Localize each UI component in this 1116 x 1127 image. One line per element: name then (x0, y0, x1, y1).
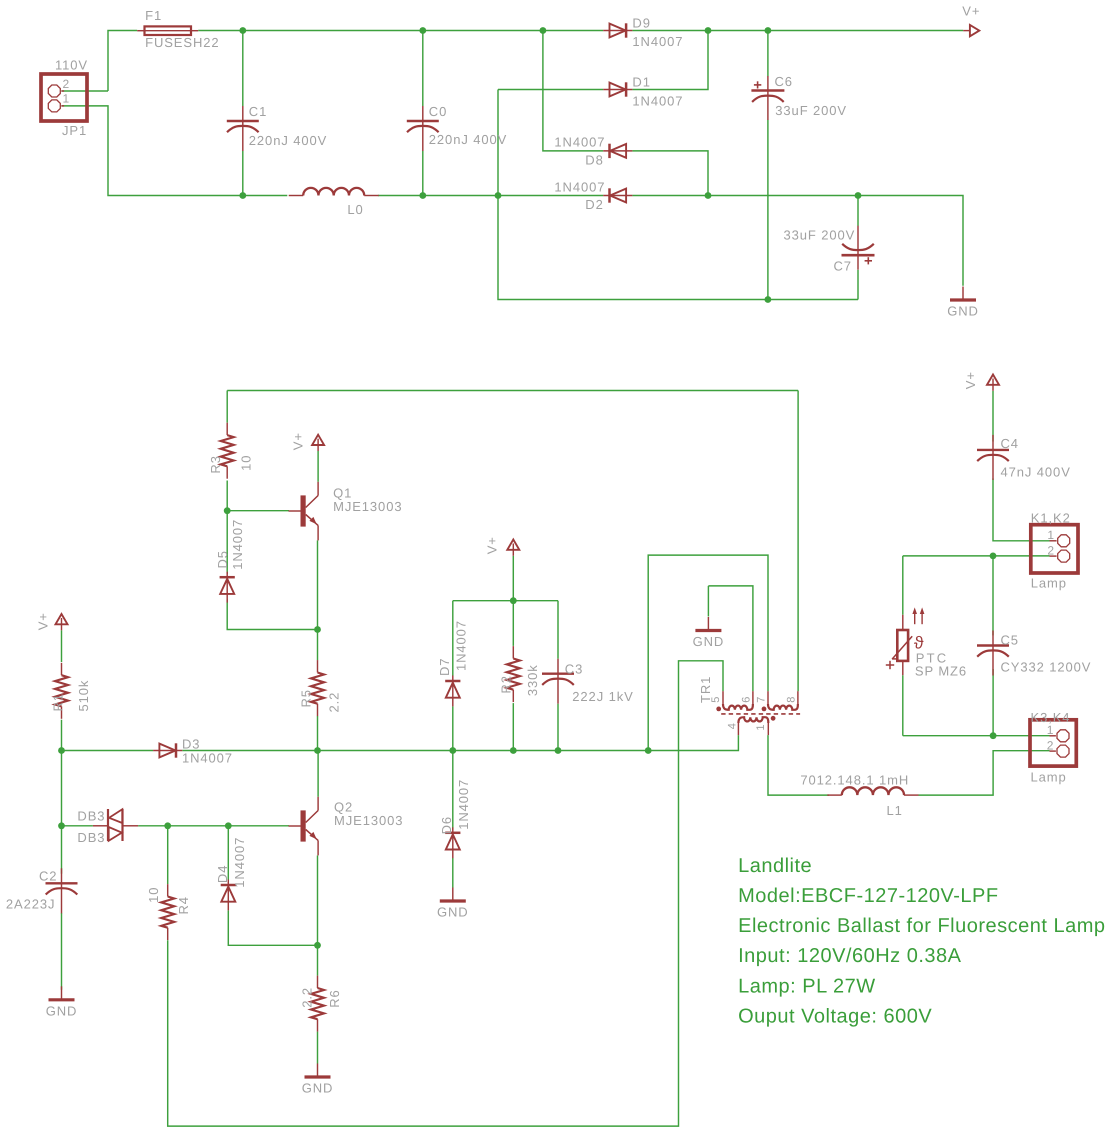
wire GND stub TR1 (707, 586, 709, 617)
wire C5 bottom (992, 669, 994, 736)
wire to DB3 row (61, 751, 63, 826)
inductor L0 (289, 188, 379, 196)
svg-text:V+: V+ (962, 3, 980, 18)
diode D8 (603, 144, 632, 158)
resistor R1 (55, 663, 68, 719)
wire Q2 collector up (317, 751, 319, 797)
svg-text:2: 2 (1047, 543, 1055, 557)
svg-text:2.2: 2.2 (300, 987, 315, 1008)
wire V+ top rail left (108, 31, 137, 92)
svg-text:GND: GND (46, 1003, 78, 1018)
thermistor PTC (886, 607, 925, 675)
wire D3 row to TR1 pin7 (648, 555, 768, 750)
svg-text:7012.148.1 1mH: 7012.148.1 1mH (800, 773, 909, 788)
junction (314, 942, 321, 949)
svg-text:220nJ 400V: 220nJ 400V (429, 132, 507, 147)
wire to D7 (452, 601, 454, 676)
wire bottom rail right (632, 196, 963, 286)
capacitor C0 (407, 106, 439, 151)
wire Q1 collector to V+ (317, 451, 319, 482)
svg-text:L1: L1 (887, 803, 903, 818)
wire C7 branch bottom (857, 270, 859, 300)
wire C0 branch bottom (422, 151, 424, 196)
wire C4 to K1K2 pin1 (993, 479, 1050, 541)
svg-text:5: 5 (710, 696, 722, 703)
ground C2 (46, 986, 78, 1018)
svg-text:Model:EBCF-127-120V-LPF: Model:EBCF-127-120V-LPF (738, 885, 999, 907)
ground D6 (437, 888, 469, 920)
svg-text:510k: 510k (76, 680, 91, 712)
junction (510, 747, 517, 754)
svg-text:V+: V+ (35, 612, 50, 630)
resistor R5 (311, 660, 324, 716)
svg-text:C3: C3 (565, 662, 583, 677)
svg-text:1: 1 (1047, 723, 1055, 737)
wire C3 to D3 row (557, 704, 559, 751)
svg-text:Lamp: Lamp (1031, 770, 1067, 785)
wire bottom rail left (61, 106, 287, 196)
junction (239, 27, 246, 34)
capacitor C6 (751, 76, 784, 120)
svg-text:Landlite: Landlite (738, 855, 812, 877)
svg-text:FUSESH22: FUSESH22 (145, 35, 219, 50)
svg-text:10: 10 (146, 887, 161, 903)
capacitor C5 (977, 631, 1009, 676)
svg-text:R1: R1 (50, 693, 65, 711)
svg-text:2: 2 (1047, 738, 1055, 752)
wire C2 to GND (61, 913, 63, 990)
svg-text:D2: D2 (585, 197, 603, 212)
transformer TR1 (716, 691, 800, 735)
svg-text:220nJ 400V: 220nJ 400V (249, 133, 327, 148)
wire D4 to emitter node (228, 911, 317, 946)
svg-text:R5: R5 (299, 689, 314, 707)
wire C0 branch top (422, 31, 424, 107)
svg-text:Lamp: PL 27W: Lamp: PL 27W (738, 975, 876, 997)
wire D1 cathode to rail (632, 31, 708, 90)
svg-text:C0: C0 (429, 104, 447, 119)
wire C7 branch top (857, 196, 859, 226)
junction (495, 192, 502, 199)
wire PTC top (902, 556, 904, 615)
junction (705, 192, 712, 199)
svg-text:C7: C7 (834, 259, 852, 274)
wire to R2 (512, 601, 514, 646)
svg-text:CY332 1200V: CY332 1200V (1001, 660, 1092, 675)
ground TR1 (693, 617, 725, 649)
junction (765, 296, 772, 303)
junction (990, 553, 997, 560)
svg-text:GND: GND (693, 634, 725, 649)
wire Q2 emitter down (317, 856, 319, 946)
svg-text:R2: R2 (499, 675, 514, 693)
capacitor C4 (977, 435, 1009, 480)
junction (419, 27, 426, 34)
svg-text:MJE13003: MJE13003 (334, 813, 403, 828)
wire to R6 (317, 945, 319, 975)
svg-text:1: 1 (1047, 528, 1055, 542)
junction (58, 822, 65, 829)
wire V+ to node (512, 556, 514, 601)
connector K1 K2 (1031, 525, 1078, 573)
capacitor C7 (842, 226, 875, 270)
svg-text:1N4007: 1N4007 (453, 620, 468, 671)
svg-text:Electronic Ballast for Fluores: Electronic Ballast for Fluorescent Lamp (738, 915, 1105, 937)
junction (419, 192, 426, 199)
svg-text:1N4007: 1N4007 (554, 134, 605, 149)
svg-text:1N4007: 1N4007 (632, 93, 683, 108)
wire K1K2 pin2 row (903, 555, 1050, 557)
wire V+ top rail right (632, 30, 963, 32)
wire JP1 pin2 to rail (61, 90, 108, 92)
svg-text:D7: D7 (437, 658, 452, 676)
wire D1 anode (498, 89, 603, 91)
wire K3K4 pin1 row (903, 735, 1050, 737)
resistor R6 (311, 976, 324, 1032)
svg-text:SP MZ6: SP MZ6 (915, 663, 967, 678)
wire D3 row to D6 (452, 751, 454, 830)
svg-text:47nJ 400V: 47nJ 400V (1001, 465, 1071, 480)
svg-text:1: 1 (63, 92, 71, 106)
svg-text:V+: V+ (485, 536, 500, 554)
svg-text:6: 6 (741, 696, 753, 703)
svg-text:V+: V+ (963, 371, 978, 389)
svg-text:D1: D1 (632, 74, 650, 89)
svg-text:D8: D8 (585, 153, 603, 168)
diode D3 (153, 743, 182, 757)
diode D4 (221, 880, 236, 911)
wire C6 branch top (767, 31, 769, 77)
wire V+ top rail mid (198, 30, 603, 32)
svg-text:110V: 110V (55, 58, 88, 73)
wire D6 to GND (452, 858, 454, 888)
supply V+ at Q1 (312, 435, 324, 451)
connector K3 K4 (1030, 720, 1076, 766)
wire R5 to D3 row (317, 716, 319, 751)
junction (990, 732, 997, 739)
svg-text:1: 1 (755, 724, 767, 731)
svg-text:1N4007: 1N4007 (632, 34, 683, 49)
wire to R5 (317, 630, 319, 661)
wire D8 cathode branch (543, 31, 603, 151)
wire to C2 (61, 826, 63, 874)
fuse F1 (137, 26, 198, 35)
supply V+ arrow top right (963, 25, 979, 36)
capacitor C2 (46, 868, 78, 913)
svg-text:Lamp: Lamp (1031, 576, 1067, 591)
svg-text:4: 4 (726, 722, 738, 729)
resistor R4 (161, 884, 174, 940)
svg-text:8: 8 (786, 696, 798, 703)
diode D6 (445, 827, 460, 858)
svg-text:2A223J: 2A223J (6, 896, 56, 911)
wire TR1 pin1 to L1 (768, 735, 829, 795)
diac DB3 (93, 809, 138, 841)
svg-text:C5: C5 (1001, 633, 1019, 648)
connector JP1 (41, 74, 87, 121)
wire V+ to C4 (992, 391, 994, 442)
junction (224, 507, 231, 514)
svg-text:K1,K2: K1,K2 (1031, 510, 1071, 525)
svg-text:R3: R3 (208, 455, 223, 473)
junction (510, 597, 517, 604)
wire R3 top to TR1 pin8 (227, 390, 798, 392)
wire D8 anode down (632, 151, 708, 196)
diode D1 (603, 82, 632, 96)
svg-text:D9: D9 (632, 15, 650, 30)
wire D3 row to TR1 pin4 (182, 735, 738, 750)
svg-text:222J 1kV: 222J 1kV (572, 689, 633, 704)
transistor Q2 (289, 797, 319, 856)
svg-text:L0: L0 (347, 202, 363, 217)
wire R6 to GND (317, 1032, 319, 1064)
svg-text:C6: C6 (775, 74, 793, 89)
svg-text:1N4007: 1N4007 (232, 837, 247, 888)
wire to D4 (227, 826, 229, 880)
wire D7 to D3 row (452, 706, 454, 750)
svg-text:10: 10 (238, 455, 253, 471)
wire C5 top (992, 556, 994, 636)
ground top right (947, 287, 979, 319)
wire bottom rail mid (378, 195, 603, 197)
diode D9 (603, 23, 632, 37)
wire to C3 (557, 601, 559, 659)
wire L1 to K3K4 pin2 (919, 751, 1050, 795)
svg-text:GND: GND (302, 1081, 334, 1096)
svg-text:Input: 120V/60Hz 0.38A: Input: 120V/60Hz 0.38A (738, 945, 962, 967)
supply V+ at R2 (507, 540, 519, 556)
junction (164, 822, 171, 829)
svg-text:1N4007: 1N4007 (182, 750, 233, 765)
wire to TR1 pin8 (797, 391, 799, 692)
wire C1 branch bottom (242, 151, 244, 196)
svg-text:2: 2 (63, 77, 71, 91)
svg-text:1N4007: 1N4007 (554, 179, 605, 194)
supply V+ at C4 (987, 375, 999, 391)
junction (314, 626, 321, 633)
junction (855, 192, 862, 199)
svg-text:R6: R6 (327, 989, 342, 1007)
svg-text:JP1: JP1 (62, 123, 87, 138)
svg-text:1N4007: 1N4007 (230, 519, 245, 570)
capacitor C1 (227, 106, 259, 151)
junction (58, 747, 65, 754)
resistor R2 (507, 646, 520, 702)
wire D5 bottom (227, 599, 317, 629)
junction (314, 747, 321, 754)
wire Q1 base (227, 510, 289, 512)
diode D7 (445, 676, 460, 707)
wire mid rail to C7 bottom (498, 90, 858, 300)
svg-text:DB3: DB3 (77, 830, 105, 845)
junction (239, 192, 246, 199)
wire DB3 to Q2 base (138, 825, 289, 827)
wire C1 branch top (242, 31, 244, 107)
wire C6 branch bottom (767, 120, 769, 300)
svg-text:Ouput Voltage: 600V: Ouput Voltage: 600V (738, 1005, 932, 1027)
svg-text:C2: C2 (39, 869, 57, 884)
svg-text:330k: 330k (525, 664, 540, 696)
capacitor C3 (542, 659, 574, 704)
wire R2 to D3 row (512, 703, 514, 750)
diode D5 (220, 572, 235, 603)
wire R4 bottom loop to TR1 pin5 (168, 661, 723, 1126)
wire V+ to R1 (61, 630, 63, 662)
wire D7 R2 C3 top (453, 600, 558, 602)
resistor R3 (221, 423, 234, 479)
ground R6 (302, 1064, 334, 1096)
svg-text:MJE13003: MJE13003 (333, 499, 402, 514)
junction (765, 27, 772, 34)
wire R1 to D3 row (61, 720, 63, 751)
svg-text:DB3: DB3 (77, 809, 105, 824)
wire PTC bottom (902, 675, 904, 736)
svg-text:7: 7 (755, 696, 767, 703)
wire D3 anode (62, 750, 154, 752)
svg-text:D4: D4 (215, 865, 230, 883)
wire to R3 (226, 391, 228, 423)
junction (225, 822, 232, 829)
svg-text:33uF 200V: 33uF 200V (784, 228, 856, 243)
svg-text:R4: R4 (176, 896, 191, 914)
wire to R4 (167, 826, 169, 884)
svg-text:33uF 200V: 33uF 200V (775, 103, 847, 118)
diode D2 (603, 188, 632, 202)
svg-text:GND: GND (947, 304, 979, 319)
svg-text:C4: C4 (1001, 436, 1019, 451)
svg-text:1N4007: 1N4007 (456, 779, 471, 830)
svg-text:D6: D6 (439, 816, 454, 834)
junction (540, 27, 547, 34)
svg-text:D5: D5 (215, 550, 230, 568)
wire Q1 emitter down (317, 540, 319, 629)
svg-text:C1: C1 (249, 104, 267, 119)
svg-text:V+: V+ (291, 432, 306, 450)
wire TR1 pin6 to GND (708, 586, 753, 691)
svg-text:2.2: 2.2 (326, 692, 341, 713)
transistor Q1 (289, 482, 319, 541)
wire R3 to D5 (226, 481, 228, 575)
junction (555, 747, 562, 754)
svg-text:F1: F1 (145, 8, 162, 23)
junction (449, 747, 456, 754)
supply V+ at R1 (56, 614, 68, 630)
junction (645, 747, 652, 754)
wire to DB3 (62, 825, 93, 827)
inductor L1 (827, 787, 918, 795)
svg-text:GND: GND (437, 905, 469, 920)
junction (705, 27, 712, 34)
